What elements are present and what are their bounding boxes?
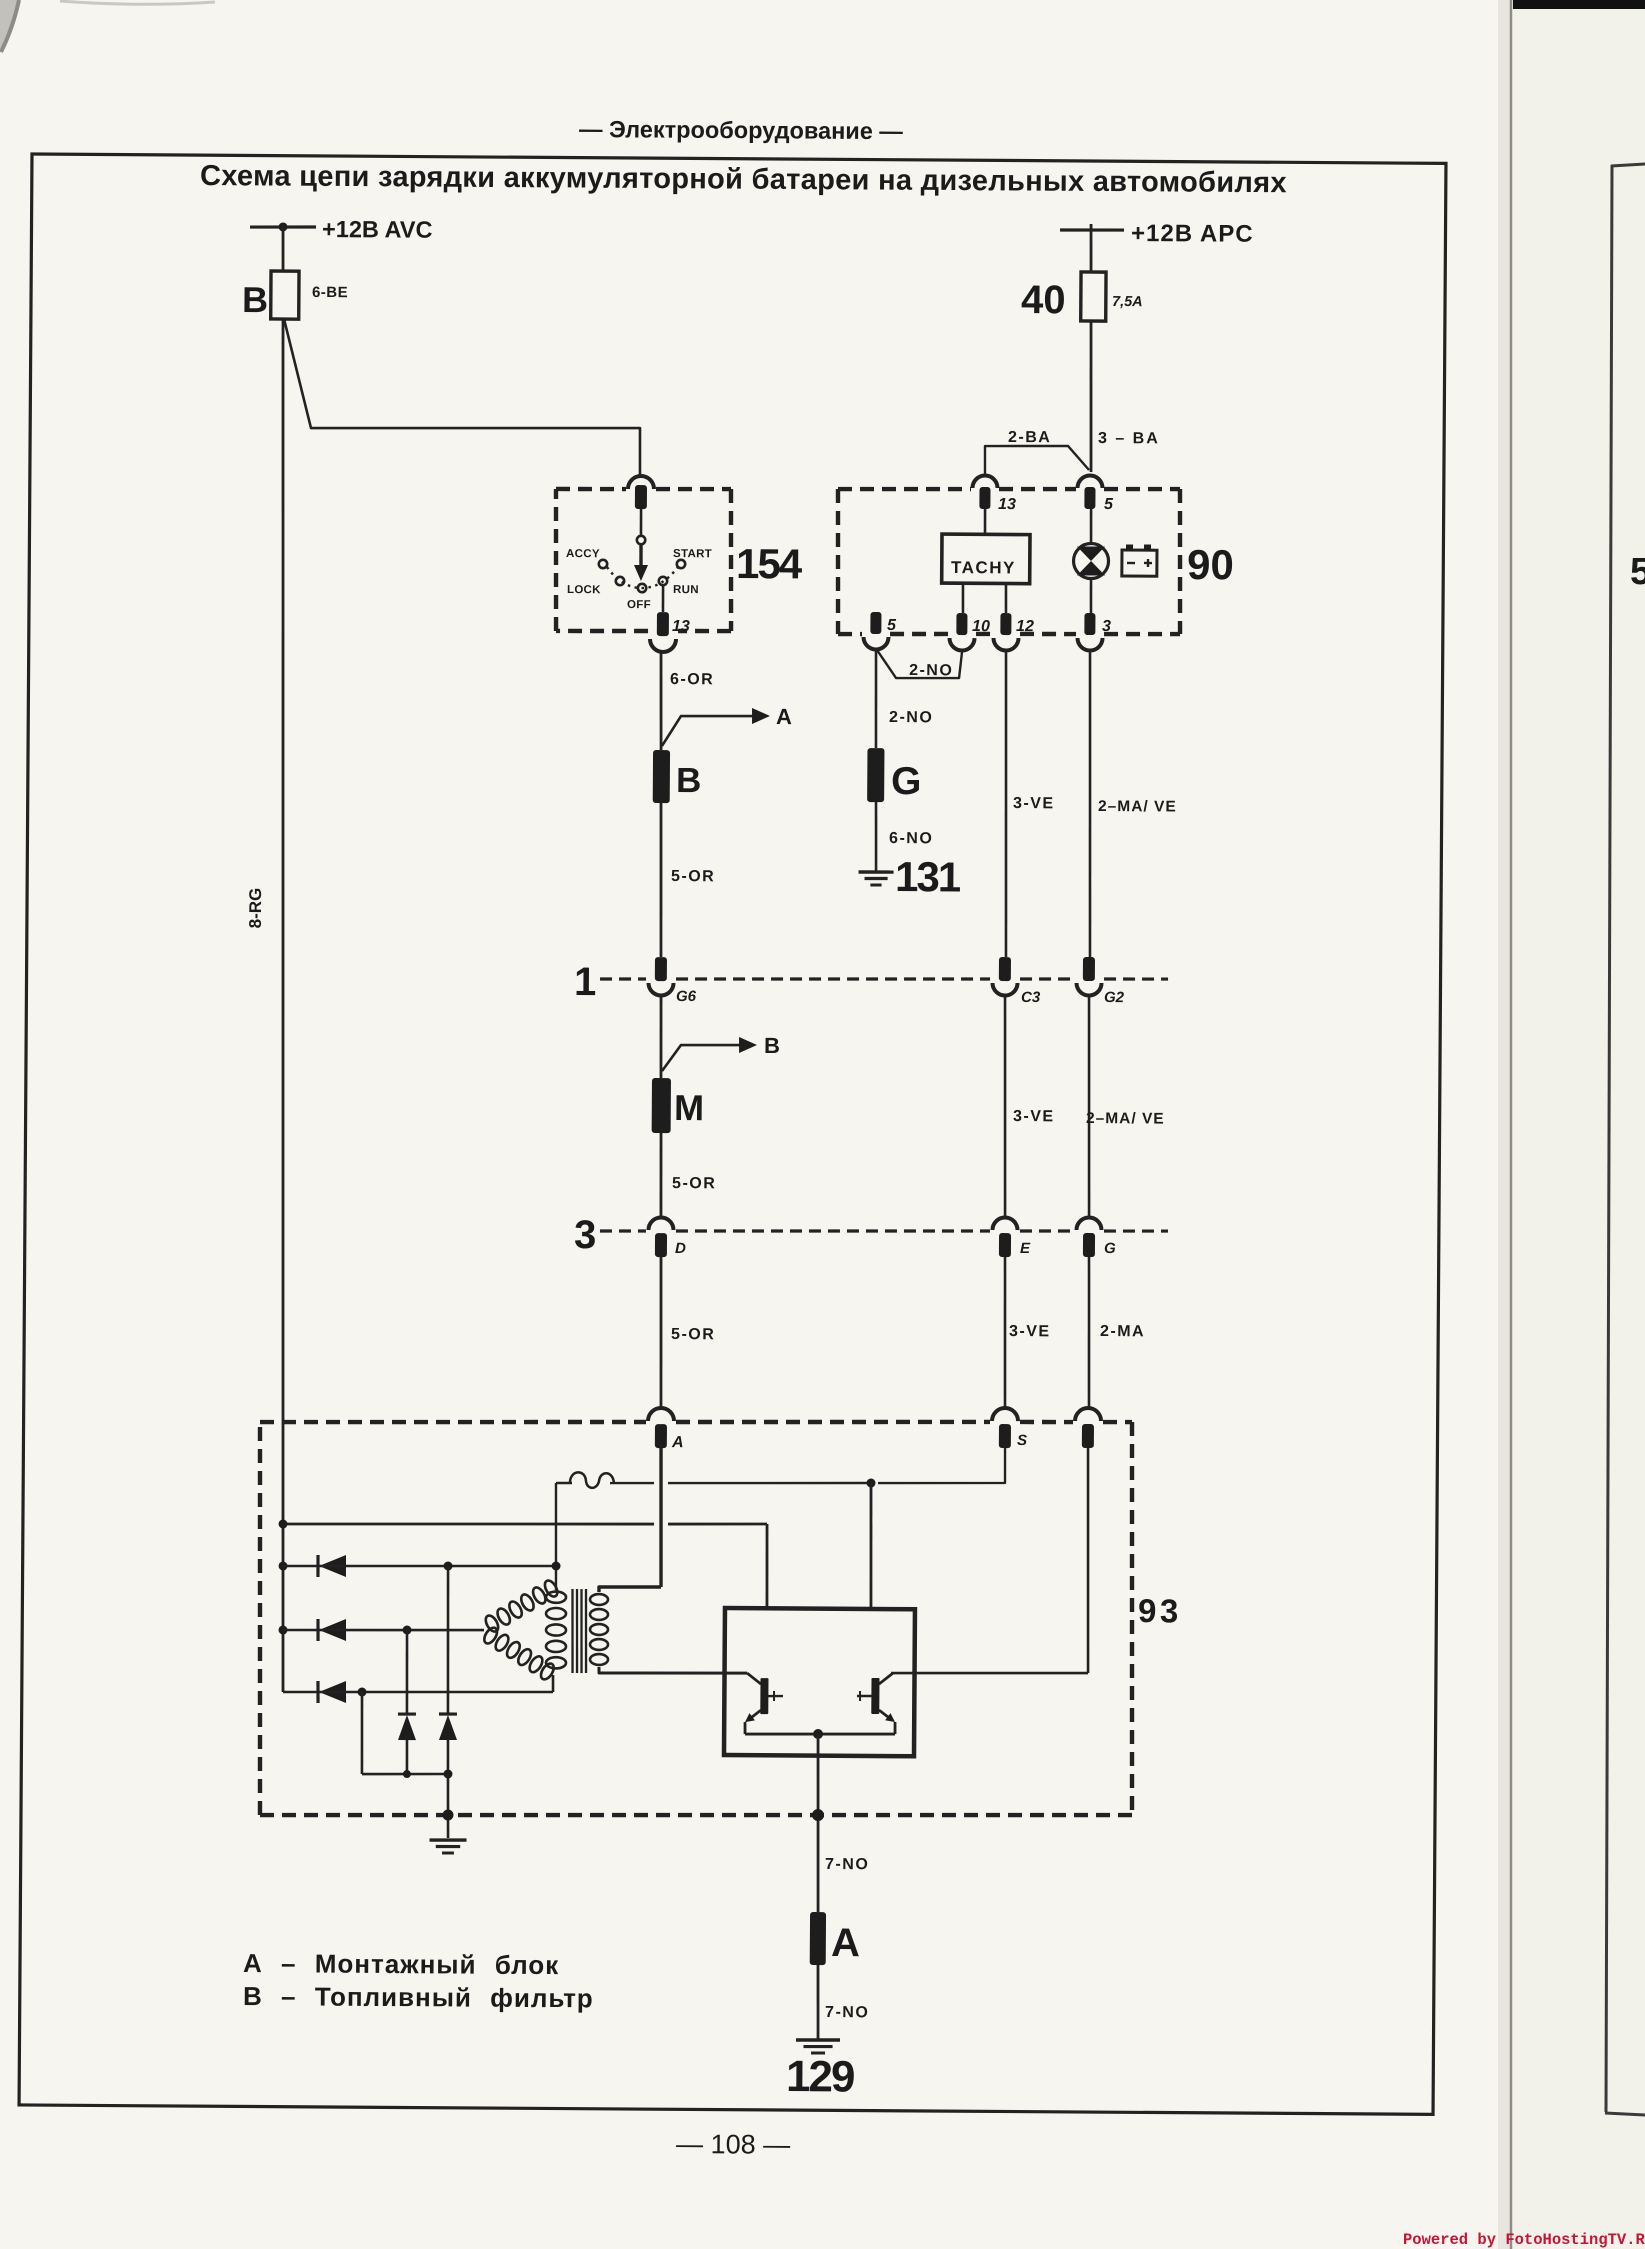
cap pin 5 (90 top): [1078, 475, 1103, 488]
svg-text:2–MA/ VE: 2–MA/ VE: [1086, 1110, 1165, 1128]
svg-text:8-RG: 8-RG: [246, 888, 265, 929]
wire ground lead 93: [446, 1774, 450, 1838]
cap E: [992, 1217, 1017, 1230]
stator delta winding bottom side: [482, 1625, 500, 1645]
wire TACHY to pin 12: [1004, 583, 1007, 613]
cap pin 3: [1077, 638, 1102, 651]
wire exciter line: [556, 1482, 572, 1485]
svg-text:5-OR: 5-OR: [671, 868, 715, 885]
wire TACHY to pin 10: [961, 583, 964, 613]
wire delta bottom stub: [552, 1675, 555, 1692]
svg-text:1: 1: [574, 960, 597, 1004]
svg-text:12: 12: [1016, 618, 1034, 635]
svg-text:5-OR: 5-OR: [672, 1175, 716, 1192]
connector A (output): [810, 1912, 826, 1965]
svg-text:5: 5: [887, 617, 897, 634]
svg-text:RUN: RUN: [673, 584, 699, 596]
wire 2-NO down: [875, 650, 876, 748]
junction row2-left: [278, 1625, 287, 1634]
adjacent page frame edge: [1606, 165, 1612, 2112]
wire diode row 1: [283, 1564, 556, 1568]
wire 3-VE upper: [1004, 652, 1008, 957]
switch wire to pivot: [640, 509, 643, 536]
svg-text:154: 154: [736, 540, 803, 587]
pin terminal G2-in: [1082, 1424, 1094, 1448]
TACHY box: [942, 534, 1030, 584]
junction output at 93 edge: [812, 1809, 824, 1821]
svg-text:А – Монтажный блок: А – Монтажный блок: [243, 1948, 559, 1980]
wire terminal A down: [660, 1448, 662, 1587]
fuse 40: [1081, 272, 1106, 321]
pin 12: [1000, 613, 1011, 635]
connector row 1 dashed line: [600, 977, 646, 981]
cap terminal G2-in: [1075, 1408, 1101, 1421]
wire 6-OR: [660, 652, 661, 750]
wire 2-MA lower: [1088, 1257, 1090, 1409]
cap terminal S: [992, 1408, 1018, 1421]
switch contact OFF: [638, 584, 646, 592]
switch wire RUN to pin 13: [662, 585, 665, 612]
switch arrow shaft: [639, 544, 643, 567]
svg-text:2–MA/ VE: 2–MA/ VE: [1098, 798, 1177, 816]
callout arrow B: [662, 1044, 748, 1071]
wire 5-OR to alternator: [660, 1257, 662, 1409]
svg-text:D: D: [675, 1240, 686, 1257]
wire lamp to pin 3: [1089, 578, 1092, 613]
svg-text:40: 40: [1021, 278, 1066, 322]
transistor Q2: [879, 1673, 893, 1684]
junction rail-z1: [403, 1770, 411, 1778]
power +12B AVC bar: [250, 225, 316, 229]
svg-text:A: A: [776, 704, 792, 729]
wire zener 1 tail: [405, 1740, 408, 1774]
pin 13 of switch: [657, 612, 669, 636]
pin 5 (90 bottom): [870, 612, 881, 634]
transformer core: [572, 1589, 573, 1673]
wire 2-NO jog pins 5-10: [877, 650, 962, 678]
svg-text:B: B: [676, 761, 702, 800]
svg-text:— 108 —: — 108 —: [676, 2129, 790, 2160]
callout arrow A: [662, 715, 760, 746]
svg-text:+12B APC: +12B APC: [1131, 220, 1254, 248]
stator delta winding right side: [546, 1592, 566, 1603]
svg-text:B: B: [242, 279, 268, 320]
wire 5-OR upper: [660, 803, 662, 957]
junction 8RG-feed: [278, 1519, 287, 1528]
zener diode Z1: [398, 1712, 416, 1715]
svg-text:B: B: [764, 1033, 780, 1058]
wire 3-BA: [1090, 321, 1092, 472]
wire 3-VE lower: [1004, 1257, 1006, 1409]
wire diode row 2: [283, 1629, 484, 1632]
wire exciter drop: [555, 1483, 556, 1590]
cap pin 5 bottom: [863, 637, 888, 650]
junction 93 bottom edge: [442, 1809, 453, 1820]
ground 129 symbol: [796, 2038, 840, 2042]
svg-text:G: G: [1104, 1240, 1116, 1257]
pin terminal A: [655, 1424, 667, 1448]
wire 5-OR lower: [660, 1133, 661, 1217]
svg-text:OFF: OFF: [627, 599, 651, 611]
page fold shadow: [1498, 0, 1511, 2249]
rectifier diode D3: [316, 1681, 320, 1703]
pin 3 (90): [1084, 613, 1095, 635]
junction emitter rail: [813, 1729, 823, 1739]
cap G2: [1076, 983, 1101, 996]
switch pivot circle: [637, 536, 645, 544]
power +12B APC bar: [1060, 228, 1124, 232]
switch contact START: [677, 560, 685, 568]
svg-text:S: S: [1017, 1432, 1027, 1449]
svg-text:2-NO: 2-NO: [909, 662, 953, 679]
junction row1-mid: [444, 1561, 453, 1570]
connector G (sender): [867, 748, 884, 802]
junction rail-right: [443, 1769, 452, 1778]
wire below row 1 left: [660, 996, 661, 1078]
ignition switch box 154 dashed: [556, 486, 626, 491]
svg-text:10: 10: [972, 618, 990, 635]
svg-text:TACHY: TACHY: [951, 558, 1016, 577]
wire emitter rail: [745, 1733, 895, 1735]
svg-text:131: 131: [895, 853, 961, 900]
pin 13 (90): [979, 487, 990, 509]
cap pin 10: [949, 638, 974, 651]
wire 2-MA/VE upper: [1088, 652, 1092, 957]
svg-text:3: 3: [574, 1213, 597, 1257]
svg-text:M: M: [674, 1087, 704, 1128]
svg-text:— Электрооборудование —: — Электрооборудование —: [579, 116, 903, 144]
svg-text:G2: G2: [1104, 989, 1125, 1006]
connector B: [653, 750, 670, 803]
cap pin 13 (90): [973, 475, 998, 488]
svg-text:G6: G6: [676, 988, 697, 1005]
cap G (row3): [1076, 1217, 1101, 1230]
svg-text:129: 129: [786, 2052, 854, 2101]
cap D: [648, 1217, 673, 1230]
right page (adjacent scanned page): [1512, 0, 1645, 2249]
wire regulator sense drop: [870, 1483, 872, 1608]
zener diode Z2: [439, 1712, 457, 1715]
fuse B: [271, 271, 299, 319]
svg-text:13: 13: [672, 618, 690, 635]
svg-text:6-BE: 6-BE: [312, 284, 348, 301]
black scan bar top right: [1513, 0, 1645, 9]
svg-text:6-OR: 6-OR: [670, 671, 714, 688]
svg-text:A: A: [831, 1921, 860, 1965]
wire to ground 129: [816, 1965, 820, 2039]
pin E: [999, 1233, 1011, 1257]
pin G (row3): [1083, 1233, 1095, 1257]
wire zener branch 2: [447, 1566, 449, 1714]
wire zener branch 1: [406, 1630, 407, 1714]
alternator box 93 dashed: [260, 1419, 646, 1424]
switch contact ACCY: [599, 560, 607, 568]
pin G6: [655, 957, 667, 981]
svg-text:2-MA: 2-MA: [1100, 1323, 1145, 1340]
junction row3-mid: [357, 1687, 366, 1696]
junction row2-mid: [402, 1625, 411, 1634]
wire stator feed horizontal: [283, 1522, 654, 1527]
switch contact RUN: [659, 577, 667, 585]
transistor Q1: [747, 1673, 761, 1684]
schematic frame: [19, 154, 1446, 2114]
svg-text:3 – BA: 3 – BA: [1098, 430, 1160, 447]
node +12B AVC junction: [278, 222, 287, 231]
wire 8-RG vertical: [274, 319, 292, 1692]
cap pin 12: [993, 638, 1018, 651]
svg-text:G: G: [891, 760, 922, 803]
switch arrow head: [634, 565, 648, 581]
battery icon: [1122, 550, 1157, 576]
svg-text:2-BA: 2-BA: [1008, 429, 1051, 446]
cluster box 90 dashed: [838, 488, 971, 490]
cap terminal A: [648, 1408, 674, 1421]
svg-text:+12B AVC: +12B AVC: [322, 216, 433, 243]
junction row1-right: [552, 1561, 561, 1570]
svg-text:3-VE: 3-VE: [1013, 1108, 1055, 1125]
cap G6: [648, 983, 673, 996]
junction row1-left: [279, 1561, 288, 1570]
pin C3: [999, 957, 1011, 981]
wire rotor top hook: [599, 1587, 661, 1593]
svg-text:7-NO: 7-NO: [825, 1856, 869, 1873]
regulator box: [724, 1608, 915, 1756]
svg-text:3: 3: [1102, 618, 1111, 635]
svg-text:ACCY: ACCY: [566, 548, 600, 560]
svg-text:A: A: [671, 1434, 684, 1451]
ground 131 symbol: [859, 870, 894, 874]
wire APC to fuse 40: [1089, 230, 1092, 272]
svg-text:3-VE: 3-VE: [1013, 795, 1055, 812]
connector M: [652, 1078, 671, 1133]
svg-text:7-NO: 7-NO: [825, 2004, 869, 2021]
svg-text:13: 13: [998, 496, 1016, 513]
junction S-drop: [866, 1478, 875, 1487]
pin switch feed: [635, 485, 647, 509]
svg-text:C3: C3: [1021, 989, 1041, 1006]
wire field return: [1087, 1448, 1090, 1673]
svg-text:5-OR: 5-OR: [671, 1326, 715, 1343]
svg-text:5: 5: [1630, 551, 1645, 593]
svg-text:В – Топливный фильтр: В – Топливный фильтр: [243, 1981, 594, 2013]
wire 2-MA/VE mid: [1088, 996, 1091, 1218]
pin D: [655, 1233, 667, 1257]
wire rotor bottom lead: [599, 1667, 747, 1674]
svg-text:LOCK: LOCK: [567, 584, 601, 596]
grey corner wedge top left: [0, 0, 19, 53]
wire zener 2 tail: [446, 1740, 449, 1774]
switch contact arc dotted: [607, 567, 678, 589]
wire S terminal lead: [878, 1447, 1005, 1484]
wire 2-BA jog: [985, 445, 1089, 474]
svg-text:2-NO: 2-NO: [889, 709, 933, 726]
switch contact LOCK: [616, 577, 624, 585]
wire pin13 to TACHY: [984, 509, 987, 534]
svg-text:3-VE: 3-VE: [1009, 1323, 1051, 1340]
rectifier diode D1: [316, 1555, 319, 1577]
wire diode row 3: [283, 1690, 553, 1694]
ground under 93: [430, 1838, 467, 1842]
wire regulator output: [817, 1734, 819, 1912]
svg-text:6-NO: 6-NO: [889, 830, 933, 847]
svg-text:START: START: [673, 548, 712, 560]
wire 6-NO: [874, 802, 878, 871]
wire AVC to fuse B: [281, 227, 284, 271]
wire zener rail: [362, 1773, 448, 1774]
wire 3-VE mid: [1004, 996, 1007, 1218]
rotor winding: [590, 1594, 608, 1605]
pin 10: [956, 613, 967, 635]
pin 5 (90 top): [1084, 487, 1095, 509]
pin terminal S: [999, 1424, 1011, 1448]
wire pin5 to lamp: [1090, 509, 1093, 545]
svg-text:5: 5: [1104, 496, 1114, 513]
connector row 3 dashed line: [600, 1229, 646, 1233]
wire fuse to switch jog: [283, 319, 641, 475]
connector cap under switch: [650, 639, 676, 652]
rectifier diode D2: [316, 1619, 320, 1641]
svg-text:7,5A: 7,5A: [1112, 294, 1143, 310]
connector cap switch feed: [628, 476, 654, 489]
charge lamp: [1073, 543, 1108, 578]
fusible squiggle: [570, 1472, 614, 1488]
svg-text:Powered by FotoHostingTV.RU: Powered by FotoHostingTV.RU: [1403, 2231, 1645, 2249]
svg-text:E: E: [1020, 1240, 1031, 1257]
svg-text:93: 93: [1138, 1592, 1182, 1629]
svg-text:90: 90: [1187, 541, 1234, 588]
pin G2: [1083, 957, 1095, 981]
stator delta winding top side: [542, 1578, 559, 1598]
cap C3: [992, 983, 1017, 996]
